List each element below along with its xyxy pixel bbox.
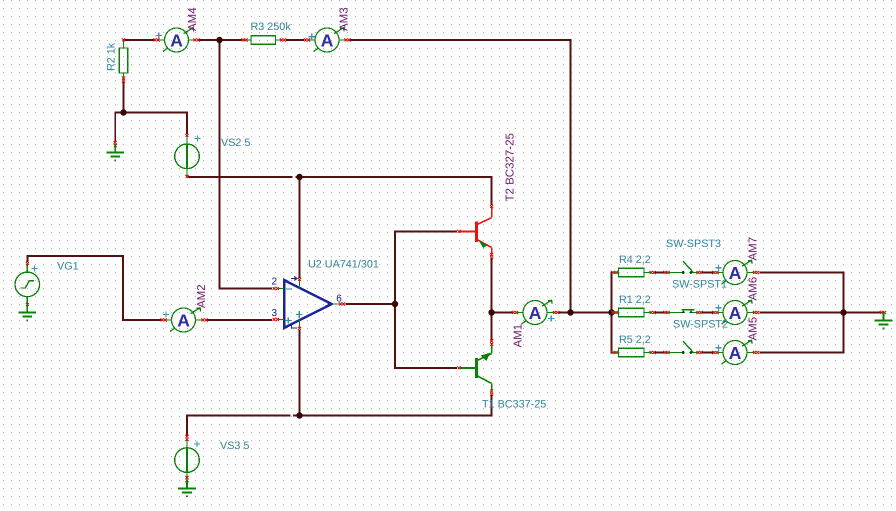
svg-text:AM6: AM6 (748, 277, 760, 301)
wire AM3 right to top-right corner down to node J7 (350, 40, 571, 313)
wire AM1 right to node J7 (558, 312, 571, 314)
wire bottom rail VS3 to T1 emitter (187, 416, 291, 437)
svg-text:R1 2,2: R1 2,2 (619, 294, 651, 306)
ground below VS3 (178, 480, 196, 497)
svg-text:6: 6 (336, 294, 342, 305)
switch SW-SPST1 (closed) (664, 310, 703, 314)
wire node J5 down to T1 base (395, 304, 457, 368)
wire AM7 right to right rail (760, 273, 844, 313)
wire op-amp V- pin down to node J4 (299, 330, 301, 416)
voltage source VS3 (175, 435, 201, 482)
ammeter AM2 (161, 308, 208, 332)
transistor T1 (NPN BC337-25) (458, 340, 494, 396)
svg-text:AM3: AM3 (339, 7, 351, 31)
wire AM5 right to right rail up to J9 (760, 313, 844, 353)
ammeter AM1 (512, 300, 559, 324)
node J9 (840, 309, 846, 315)
wire T1 top to node J6 (491, 313, 493, 343)
wire node J2 to VS2 top (124, 113, 188, 135)
pin 4 marker (292, 326, 298, 328)
svg-text:3: 3 (272, 308, 278, 319)
pin 7 arrow marker (291, 277, 297, 281)
wire node J5 up to T2 base (395, 232, 457, 305)
wire R4 to switch SW-SPST3 (653, 272, 665, 274)
svg-text:SW-SPST1: SW-SPST1 (672, 279, 727, 291)
node J5 (392, 301, 398, 307)
wire gap segment J3 to T2 collector (296, 177, 492, 205)
switch SW-SPST3 (open) (664, 261, 703, 274)
svg-text:AM5: AM5 (748, 317, 760, 341)
wire op-amp pin2 to node J1 (220, 40, 273, 289)
ammeter AM4 (154, 28, 200, 52)
svg-text:SW-SPST2: SW-SPST2 (673, 319, 728, 331)
svg-text:AM4: AM4 (187, 7, 199, 31)
node J4 (296, 412, 302, 418)
ammeter AM7 (712, 260, 759, 284)
ammeter AM5 (712, 340, 759, 364)
svg-text:AM2: AM2 (196, 284, 208, 308)
transistor T2 (PNP BC327-25) (458, 205, 494, 259)
minus at pin 2 (286, 288, 292, 290)
wire R5 to switch SW-SPST2 (653, 352, 665, 354)
svg-text:T1 BC337-25: T1 BC337-25 (482, 399, 546, 411)
ground below node J2 (106, 141, 124, 161)
wire T2 emitter to node J6 (491, 257, 493, 313)
wire switch SW-SPST1 to AM6 (701, 312, 715, 314)
resistor R1 (612, 308, 656, 317)
svg-text:U2 UA741/301: U2 UA741/301 (308, 259, 379, 271)
wire R3 right to AM3 left (286, 39, 304, 41)
plus at pin 3 (285, 317, 291, 323)
switch SW-SPST2 (open) (664, 341, 703, 354)
svg-text:VG1: VG1 (57, 261, 79, 273)
wire node J6 to AM1 left (492, 312, 513, 314)
plus power marker (296, 311, 303, 318)
op-amp U2 (273, 277, 346, 330)
node J7 (567, 309, 573, 315)
wire node J8 up to R4 branch (612, 273, 614, 313)
resistor R5 (612, 348, 656, 357)
node J3 (296, 174, 302, 180)
wire gap segment bottom rail to T1 (293, 394, 492, 416)
wire node J9 to right ground (844, 312, 882, 314)
wire R2 top to AM4 left (124, 39, 155, 41)
ground below VG1 (19, 304, 37, 321)
wire AM4 right to R3 left through node J1 (199, 39, 242, 41)
node J8 (608, 309, 614, 315)
ammeter AM3 (304, 28, 351, 52)
voltage generator VG1 (15, 262, 40, 306)
svg-text:2: 2 (272, 277, 278, 288)
node J6 (488, 309, 494, 315)
resistor R2 (119, 39, 128, 83)
node J1 (216, 37, 222, 43)
voltage source VS2 (175, 134, 201, 178)
wire AM6 right to node J9 (760, 312, 844, 314)
svg-text:SW-SPST3: SW-SPST3 (666, 238, 721, 250)
right ground (875, 311, 893, 329)
svg-text:R4 2,2: R4 2,2 (619, 254, 651, 266)
svg-text:AM1: AM1 (513, 324, 525, 348)
wire op-amp output to node J5 (346, 303, 396, 305)
svg-text:R2 1k: R2 1k (106, 42, 118, 71)
svg-text:VS2 5: VS2 5 (221, 137, 250, 149)
wire R1 to switch SW-SPST1 (653, 312, 665, 314)
wire AM2 right to op-amp pin3 (207, 319, 273, 321)
wire R2 bottom to node J2 (123, 81, 125, 113)
node J2 (120, 109, 126, 115)
wire VG1 top to AM2 left (27, 256, 161, 320)
svg-text:R3 250k: R3 250k (251, 21, 292, 33)
svg-text:T2 BC327-25: T2 BC327-25 (505, 133, 517, 201)
wire switch SW-SPST3 to AM7 (701, 272, 715, 274)
svg-text:AM7: AM7 (748, 237, 760, 261)
ammeter AM6 (712, 300, 759, 324)
wire node J8 down to R5 branch (612, 313, 614, 353)
wire switch SW-SPST2 to AM5 (701, 352, 715, 354)
svg-text:R5 2,2: R5 2,2 (619, 334, 651, 346)
resistor R3 (242, 36, 287, 45)
resistor R4 (612, 268, 656, 277)
wire node J2 to left ground (115, 113, 123, 143)
wire node J7 to node J8 (571, 312, 612, 314)
svg-text:VS3 5: VS3 5 (220, 440, 249, 452)
wire VS2 bottom to node J3 to T2 collector (187, 176, 293, 178)
wire node J3 to op-amp V+ pin (299, 177, 301, 278)
